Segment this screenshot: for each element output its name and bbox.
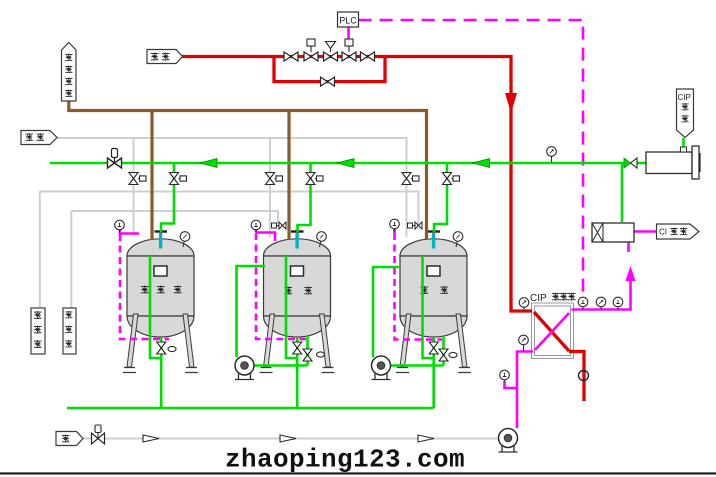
svg-text:zhaoping123.com: zhaoping123.com — [225, 445, 465, 475]
svg-text:PLC: PLC — [339, 16, 357, 26]
svg-text:CIP: CIP — [678, 93, 691, 102]
svg-text:CI: CI — [659, 228, 667, 237]
svg-text:CIP: CIP — [530, 293, 547, 304]
